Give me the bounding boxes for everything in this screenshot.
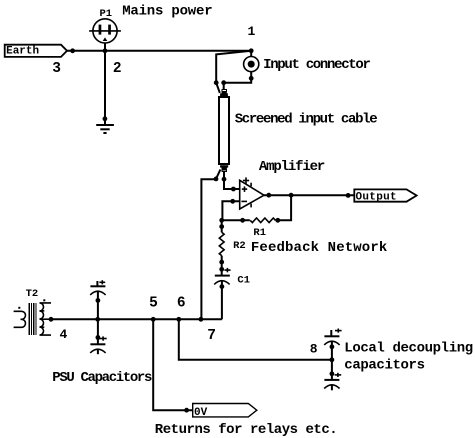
svg-text:Amplifier: Amplifier (259, 159, 325, 175)
svg-text:4: 4 (60, 327, 68, 342)
svg-text:2: 2 (113, 61, 122, 77)
svg-text:1: 1 (248, 24, 256, 39)
svg-text:PSU Capacitors: PSU Capacitors (52, 370, 152, 386)
svg-text:Returns for relays etc.: Returns for relays etc. (155, 422, 337, 438)
svg-text:Output: Output (356, 191, 397, 203)
svg-text:Input connector: Input connector (263, 57, 370, 73)
svg-text:Local decoupling: Local decoupling (344, 341, 473, 357)
svg-text:5: 5 (149, 296, 158, 312)
svg-text:T2: T2 (26, 288, 39, 300)
svg-text:Screened input cable: Screened input cable (235, 112, 378, 128)
svg-text:R2: R2 (233, 240, 246, 252)
svg-text:Earth: Earth (6, 45, 39, 57)
svg-text:0V: 0V (194, 407, 208, 419)
svg-text:6: 6 (177, 296, 186, 312)
svg-text:capacitors: capacitors (344, 358, 424, 374)
svg-text:3: 3 (52, 61, 61, 77)
svg-text:R1: R1 (253, 227, 266, 239)
svg-text:8: 8 (310, 341, 318, 356)
svg-text:Mains power: Mains power (122, 3, 212, 19)
svg-text:Feedback Network: Feedback Network (251, 240, 388, 256)
svg-text:C1: C1 (237, 275, 250, 287)
svg-text:7: 7 (207, 328, 216, 344)
svg-text:P1: P1 (100, 8, 113, 20)
